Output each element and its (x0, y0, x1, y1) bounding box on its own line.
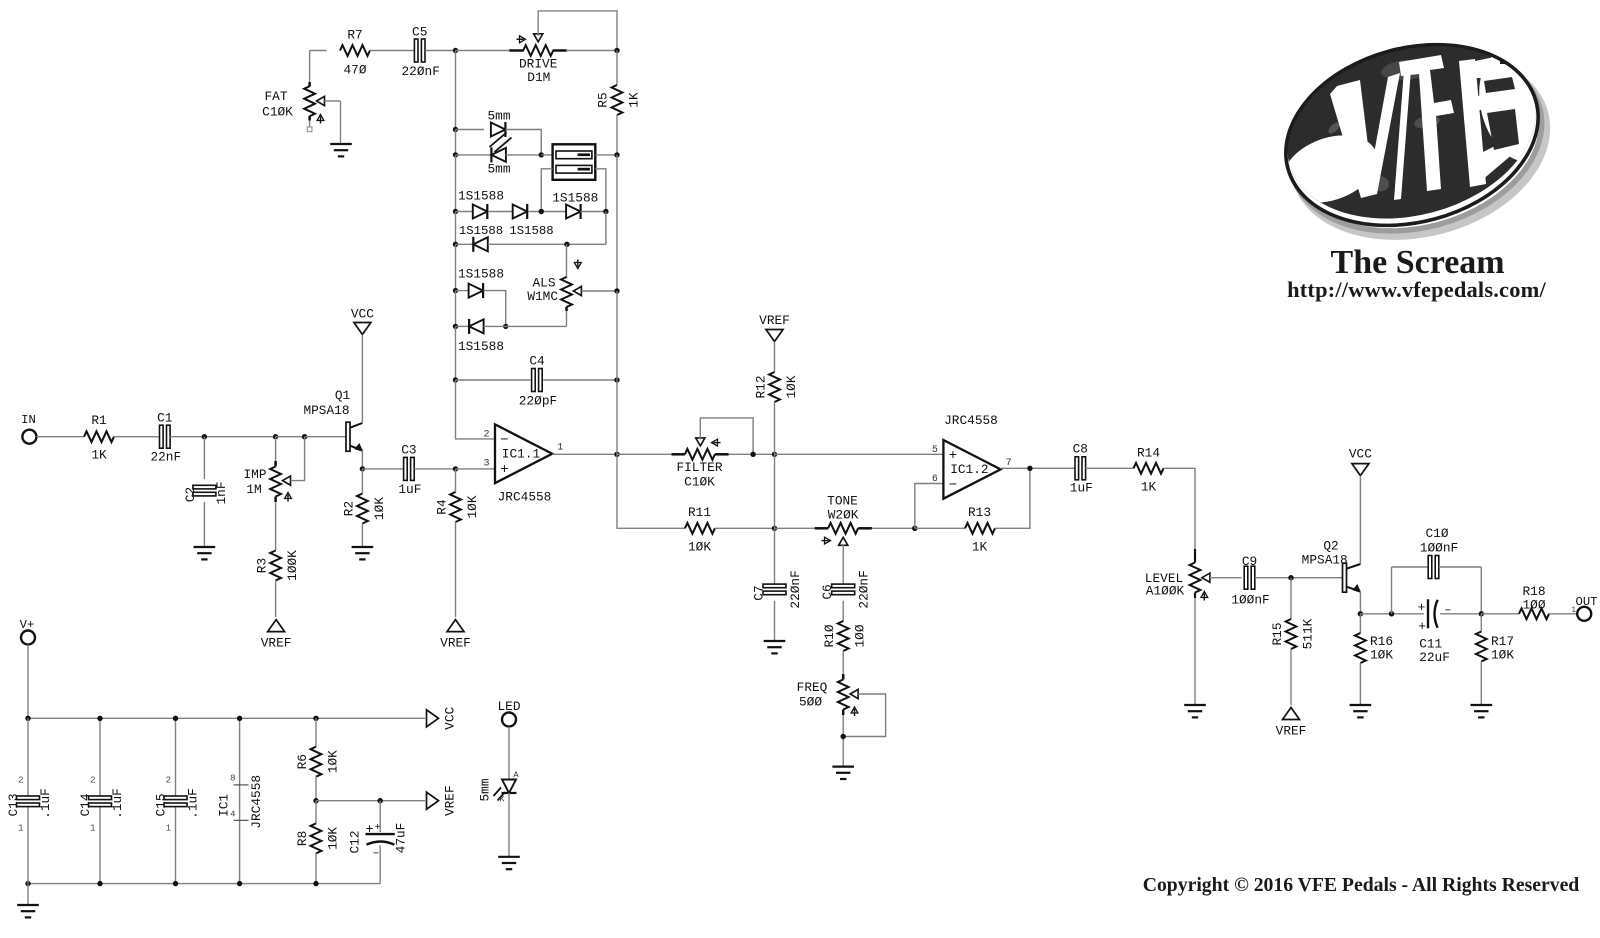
svg-text:1S1588: 1S1588 (458, 339, 504, 354)
LED arrows (494, 788, 506, 801)
svg-text:1ØØ: 1ØØ (1522, 597, 1545, 612)
svg-text:IC1.2: IC1.2 (950, 462, 988, 477)
svg-text:1: 1 (90, 824, 95, 834)
potentiometer TONE (815, 494, 872, 546)
svg-text:1ØØK: 1ØØK (285, 550, 300, 581)
node (202, 434, 207, 439)
svg-text:R13: R13 (968, 505, 991, 520)
svg-text:22nF: 22nF (150, 450, 181, 465)
node (313, 798, 318, 803)
svg-text:C5: C5 (412, 24, 427, 39)
wire (1480, 614, 1482, 632)
svg-text:JRC4558: JRC4558 (944, 413, 998, 428)
svg-text:http://www.vfepedals.com/: http://www.vfepedals.com/ (1287, 277, 1546, 302)
ground (498, 857, 520, 869)
svg-text:VREF: VREF (759, 313, 790, 328)
svg-text:1K: 1K (627, 92, 642, 108)
connector LED (502, 713, 516, 727)
potentiometer FREQ (797, 674, 886, 737)
wire Q2 emitter (1359, 591, 1361, 613)
connector IN (21, 413, 36, 444)
wire (580, 211, 606, 213)
svg-text:IN: IN (21, 413, 36, 427)
svg-text:1ØK: 1ØK (688, 540, 711, 555)
node (378, 798, 383, 803)
unconnected pin marker (307, 121, 312, 132)
svg-text:1ØK: 1ØK (784, 375, 799, 398)
wire (276, 436, 305, 438)
wire (455, 291, 457, 327)
svg-text:D1M: D1M (527, 70, 550, 85)
svg-text:1S1588: 1S1588 (459, 224, 503, 238)
wire (729, 453, 775, 455)
wire (508, 793, 510, 857)
svg-text:1S1588: 1S1588 (509, 224, 553, 238)
svg-text:1ØK: 1ØK (326, 750, 341, 773)
svg-text:JRC4558: JRC4558 (249, 775, 264, 829)
svg-text:Q2: Q2 (1323, 539, 1338, 554)
capacitor C12 polarized (348, 823, 409, 861)
capacitor C2 (183, 481, 229, 504)
svg-text:VREF: VREF (443, 785, 458, 816)
node (539, 152, 544, 157)
wire Q2 collector (1359, 476, 1361, 564)
capacitor C15 (154, 776, 201, 834)
resistor R6 (295, 747, 341, 777)
wire (414, 468, 455, 470)
wire (484, 325, 567, 327)
resistor R15 (1270, 618, 1316, 649)
wire C10 loop right (1480, 567, 1482, 614)
wire (715, 527, 775, 529)
wire C2 drop (203, 437, 205, 480)
svg-text:R5: R5 (596, 92, 611, 107)
connector OUT (1571, 595, 1597, 621)
diode D 1S1588 f1 (469, 319, 484, 334)
wire (915, 527, 965, 529)
wire VCC rail (28, 717, 425, 719)
svg-text:7: 7 (1006, 458, 1012, 469)
resistor R13 (965, 505, 995, 555)
power VREF (1276, 708, 1307, 739)
svg-text:1ØØnF: 1ØØnF (1231, 593, 1269, 608)
svg-text:3: 3 (483, 458, 489, 469)
node (614, 452, 619, 457)
svg-text:+: + (1418, 600, 1426, 615)
svg-text:Q1: Q1 (335, 388, 351, 403)
node ALS wiper on rail (614, 288, 619, 293)
ground (1184, 705, 1206, 717)
resistor R12 (754, 372, 800, 402)
wire (310, 50, 327, 52)
svg-text:C14: C14 (78, 793, 93, 816)
wire C7 drop (774, 528, 776, 583)
wire (456, 290, 469, 292)
potentiometer FAT (262, 82, 340, 124)
svg-text:TONE: TONE (827, 494, 858, 509)
LED D-5mm bottom (487, 147, 510, 176)
svg-text:C12: C12 (348, 830, 363, 853)
svg-text:VREF: VREF (440, 636, 471, 651)
node (25, 716, 30, 721)
label LED (497, 699, 520, 714)
wire (456, 129, 485, 131)
wire C10 loop left (1391, 567, 1393, 614)
wire (484, 291, 506, 327)
svg-text:C1ØK: C1ØK (262, 105, 293, 120)
svg-text:1S1588: 1S1588 (458, 189, 504, 204)
wire (1086, 467, 1134, 469)
wire (114, 436, 160, 438)
wire pin1 out (552, 453, 617, 455)
capacitor C3 (398, 443, 421, 498)
svg-text:FILTER: FILTER (676, 460, 722, 475)
svg-text:R3: R3 (255, 558, 270, 573)
wire (456, 379, 531, 381)
svg-text:R2: R2 (342, 501, 357, 516)
wire (455, 212, 457, 245)
svg-text:Copyright © 2016 VFE Pedals -: Copyright © 2016 VFE Pedals - All Rights… (1143, 874, 1580, 896)
wire right rail to R11 (617, 454, 685, 528)
svg-text:A: A (514, 770, 520, 780)
optocoupler box (553, 144, 596, 180)
svg-text:1S1588: 1S1588 (552, 190, 598, 205)
svg-text:1uF: 1uF (1070, 481, 1093, 496)
wire (455, 326, 457, 380)
wire (842, 651, 844, 674)
capacitor C7 (752, 570, 804, 608)
potentiometer DRIVE (509, 34, 566, 85)
node (453, 242, 458, 247)
svg-text:−: − (949, 478, 957, 494)
wire (315, 853, 317, 883)
wire (872, 527, 915, 529)
svg-text:2: 2 (166, 776, 171, 786)
node Q2 emitter (1358, 611, 1363, 616)
wire (1392, 566, 1429, 568)
wire (774, 601, 776, 641)
diode D 1S1588 e1 (469, 283, 484, 298)
power VREF (440, 620, 471, 651)
wire (27, 884, 29, 905)
power VCC (1349, 447, 1372, 476)
resistor R3 (255, 550, 301, 581)
wire (455, 244, 457, 290)
capacitor C13 (6, 776, 53, 834)
node (173, 716, 178, 721)
node (772, 526, 777, 531)
node (564, 242, 569, 247)
capacitor C8 (1070, 442, 1093, 496)
resistor R16 (1355, 633, 1393, 663)
wire (1194, 598, 1196, 705)
svg-text:1: 1 (166, 824, 171, 834)
node (97, 716, 102, 721)
svg-text:1nF: 1nF (214, 481, 229, 504)
node (237, 881, 242, 886)
wire DRIVE wiper loop (538, 11, 617, 51)
wire (455, 522, 457, 617)
wire (456, 211, 473, 213)
svg-text:2: 2 (483, 429, 489, 440)
transistor Q2 (1302, 539, 1361, 593)
svg-text:R6: R6 (295, 754, 310, 769)
wire (456, 50, 510, 52)
resistor R2 (342, 494, 388, 524)
IC1 power pins (217, 718, 265, 883)
wire pin7 out (1001, 467, 1075, 469)
svg-text:−: − (1444, 606, 1451, 618)
power VREF (261, 620, 292, 651)
svg-text:47uF: 47uF (394, 823, 409, 854)
power VCC (427, 706, 458, 729)
wire box to right rail (595, 154, 617, 156)
svg-text:1S1588: 1S1588 (458, 266, 504, 281)
resistor R14 (1134, 445, 1164, 494)
svg-text:22ØnF: 22ØnF (788, 570, 803, 608)
potentiometer LEVEL (1145, 549, 1242, 601)
svg-text:8: 8 (230, 774, 235, 784)
diode D 1S1588 d1 (473, 237, 488, 252)
svg-text:1ØK: 1ØK (372, 497, 387, 520)
svg-text:C1ØK: C1ØK (684, 474, 715, 489)
wire (455, 130, 457, 155)
svg-text:C7: C7 (752, 585, 767, 600)
capacitor C14 (78, 776, 125, 834)
node (503, 324, 508, 329)
node (912, 526, 917, 531)
ground (17, 905, 39, 917)
node (614, 152, 619, 157)
wire FAT top (309, 51, 311, 83)
capacitor C6 (820, 570, 872, 608)
wire pin2 (456, 380, 496, 439)
svg-text:R1: R1 (91, 413, 107, 428)
wire (541, 154, 552, 156)
svg-text:1ØØnF: 1ØØnF (1420, 541, 1458, 556)
wire box slot2 right (595, 169, 606, 212)
svg-text:1ØK: 1ØK (465, 495, 480, 518)
wire (774, 402, 776, 454)
svg-text:R15: R15 (1270, 622, 1285, 645)
svg-text:1M: 1M (246, 482, 261, 497)
wire TONE wiper drop (842, 544, 844, 584)
svg-text:VCC: VCC (351, 307, 374, 322)
wire (1255, 577, 1344, 579)
svg-text:R12: R12 (754, 375, 769, 398)
wire box slot2 left (541, 169, 552, 212)
node (25, 881, 30, 886)
svg-text:22ØnF: 22ØnF (857, 570, 872, 608)
wire (1439, 566, 1482, 568)
node (1479, 611, 1484, 616)
svg-text:JRC4558: JRC4558 (498, 490, 552, 505)
svg-text:MPSA18: MPSA18 (1302, 553, 1348, 568)
resistor R4 (435, 469, 481, 522)
wire (1480, 662, 1482, 706)
wire to pin5 (775, 453, 944, 455)
svg-text:FAT: FAT (264, 89, 287, 104)
wire R12 node drop (774, 454, 776, 528)
capacitor C4 (519, 354, 557, 409)
svg-text:C15: C15 (154, 793, 169, 816)
wire (370, 50, 415, 52)
svg-text:1ØK: 1ØK (1370, 648, 1393, 663)
wire (275, 581, 277, 618)
svg-text:6: 6 (932, 474, 938, 485)
label (459, 224, 554, 238)
wire (842, 601, 844, 621)
wire (1164, 468, 1196, 549)
svg-text:47Ø: 47Ø (343, 63, 366, 78)
node (453, 152, 458, 157)
wire FILTER wiper loop (700, 418, 753, 454)
node (302, 434, 307, 439)
wire (315, 718, 317, 746)
svg-text:1ØØ: 1ØØ (853, 624, 868, 647)
resistor R1 (84, 413, 114, 463)
wire right rail (616, 155, 618, 291)
op-amp IC1.2 (932, 413, 1012, 499)
svg-text:VCC: VCC (443, 706, 458, 729)
wire (456, 325, 469, 327)
wire (528, 211, 567, 213)
wire (1290, 578, 1292, 619)
resistor R5 (596, 51, 642, 155)
svg-text:R14: R14 (1137, 445, 1160, 460)
svg-text:R7: R7 (347, 28, 362, 43)
wire (170, 436, 276, 438)
svg-text:R1Ø: R1Ø (822, 624, 837, 647)
resistor R10 (822, 621, 868, 651)
node (173, 881, 178, 886)
wire (1360, 613, 1424, 615)
node (273, 434, 278, 439)
svg-text:+: + (366, 823, 374, 838)
wire (1481, 613, 1519, 615)
node (97, 881, 102, 886)
wire (1290, 649, 1292, 705)
node (603, 209, 608, 214)
svg-text:R11: R11 (688, 505, 711, 520)
wire (842, 715, 844, 767)
capacitor C10 (1420, 526, 1458, 579)
svg-text:C4: C4 (529, 354, 545, 369)
wire (379, 846, 381, 884)
wire pin3 (456, 468, 496, 470)
svg-text:−: − (373, 849, 380, 861)
label (458, 189, 598, 206)
ground (764, 641, 786, 653)
ground (1350, 705, 1372, 717)
svg-text:VCC: VCC (1349, 447, 1372, 462)
svg-text:OUT: OUT (1576, 595, 1598, 609)
wire (488, 243, 606, 245)
resistor R17 (1476, 632, 1514, 663)
node (614, 377, 619, 382)
node (237, 716, 242, 721)
svg-text:5ØØ: 5ØØ (799, 695, 822, 710)
label (458, 339, 504, 354)
svg-text:1K: 1K (1141, 479, 1157, 494)
wire (27, 645, 29, 719)
svg-text:1K: 1K (972, 540, 988, 555)
potentiometer IMP (243, 437, 304, 502)
svg-text:5mm: 5mm (478, 778, 493, 801)
svg-text:IC1.1: IC1.1 (502, 446, 541, 461)
wire (455, 51, 457, 130)
wire (175, 718, 177, 883)
wire (506, 154, 542, 156)
svg-text:+: + (375, 823, 381, 834)
diode D 1S1588 c3 (566, 204, 581, 219)
svg-text:A1ØØK: A1ØØK (1146, 584, 1185, 599)
capacitor C1 (150, 411, 181, 465)
node (453, 288, 458, 293)
wire (543, 379, 617, 381)
svg-text:+: + (1418, 619, 1426, 634)
svg-text:1: 1 (18, 824, 23, 834)
node (539, 209, 544, 214)
transistor Q1 (303, 388, 362, 451)
capacitor C11 polarized (1418, 599, 1452, 665)
op-amp IC1.1 (483, 424, 563, 504)
node DRIVE-R5 (614, 48, 619, 53)
power VREF (759, 313, 790, 342)
resistor R8 (295, 823, 341, 853)
wire (361, 469, 363, 494)
resistor R11 (685, 505, 715, 555)
wire (275, 502, 277, 551)
wire (1549, 613, 1577, 615)
svg-text:1: 1 (1571, 606, 1576, 615)
ground (194, 547, 216, 559)
node (1389, 611, 1394, 616)
svg-text:1uF: 1uF (398, 482, 421, 497)
svg-text:.1uF: .1uF (186, 788, 201, 819)
capacitor C5 (401, 24, 439, 79)
node Q1 emitter (360, 466, 365, 471)
svg-text:1ØK: 1ØK (1491, 648, 1514, 663)
node (772, 452, 777, 457)
wire (379, 801, 381, 832)
node (453, 466, 458, 471)
wire (305, 436, 346, 438)
svg-text:22ØpF: 22ØpF (519, 394, 557, 409)
svg-text:The Scream: The Scream (1331, 244, 1505, 281)
wire pin6 loop (915, 484, 944, 529)
node (313, 881, 318, 886)
svg-text:1ØK: 1ØK (326, 827, 341, 850)
diode D 1S1588 c2 (513, 204, 528, 219)
svg-text:C13: C13 (6, 793, 21, 816)
wire right rail (616, 380, 618, 454)
wire (456, 243, 474, 245)
node (1288, 575, 1293, 580)
LED arrows (490, 133, 512, 153)
wire GND rail (28, 883, 380, 885)
resistor R18 (1519, 584, 1549, 619)
node (453, 127, 458, 132)
wire (455, 155, 457, 212)
svg-text:C9: C9 (1242, 554, 1257, 569)
node (313, 716, 318, 721)
svg-text:2: 2 (18, 776, 23, 786)
wire (775, 527, 815, 529)
resistor R7 (340, 28, 370, 78)
svg-text:R8: R8 (295, 831, 310, 846)
wire (995, 468, 1030, 528)
